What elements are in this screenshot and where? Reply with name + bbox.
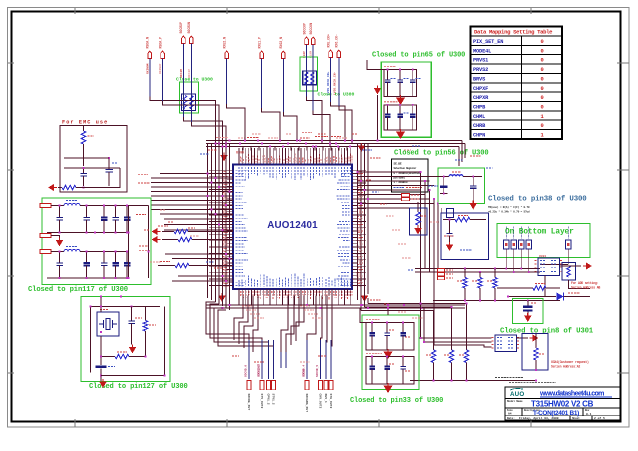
resistor R318 (crystal) (143, 307, 156, 357)
power arrow at U300 top-right (358, 143, 366, 152)
wire: bottom rail under U302 cluster (410, 380, 536, 382)
cap cell rail A (pin33) (366, 320, 414, 351)
capacitor C332 (369, 323, 375, 351)
diode D300 (557, 293, 591, 301)
wire bus: vertical lines left of U300 (208, 144, 230, 311)
component box U304 (522, 334, 548, 371)
junction dots row2 (59, 251, 128, 279)
capacitor C331 (523, 301, 537, 315)
connector pin CN322 (bottom) (267, 381, 271, 405)
green box pin127 outline (81, 297, 170, 382)
connector pin CN325 (bottom) (316, 365, 323, 409)
svg-text:CHPB: CHPB (473, 104, 486, 110)
capacitor C337 (400, 357, 411, 385)
svg-text:AUO12401: AUO12401 (267, 220, 318, 231)
connector pin CN306 (top) (279, 37, 285, 59)
junction dots on left rows (215, 177, 231, 206)
ground arrow (crystal bottom) (99, 379, 107, 388)
capacitor C307 (56, 252, 63, 279)
junction dots lower right rail (464, 296, 529, 302)
svg-text:CKV_OUT2: CKV_OUT2 (319, 394, 323, 409)
svg-text:BRVS: BRVS (473, 76, 486, 82)
capacitor C310 (112, 252, 119, 279)
svg-text:CHRB: CHRB (473, 123, 486, 129)
svg-text:TR(use) = R(A) * C(F) * 0.79: TR(use) = R(A) * C(F) * 0.79 (488, 205, 530, 209)
connector pin CN320 (bottom) (244, 365, 251, 411)
cap cell rail B (pin33) (366, 354, 414, 385)
wire: crystal top rail (91, 297, 161, 373)
junction dot (377, 140, 379, 142)
IC U300 bottom pin names (239, 274, 351, 287)
capacitor C313 (block) (96, 357, 116, 382)
net labels below top connector pins (146, 51, 336, 95)
connector pads P302 (3-pad) (438, 269, 454, 280)
power arrow VDD (right of U301) (583, 263, 592, 270)
net label in box C (460, 249, 472, 251)
wire bus: left entry rows into U300 (151, 174, 233, 231)
wire: top connector pins to bus (staircase) (150, 44, 352, 147)
green box pin117 outline (42, 198, 151, 285)
svg-text:RXE1_P: RXE1_P (257, 37, 261, 49)
green box pin56 outline (438, 168, 485, 204)
svg-text:Serien Address AB: Serien Address AB (571, 286, 600, 290)
IC U300 top pin names (239, 167, 351, 180)
capacitor C308 (83, 252, 90, 279)
resistor R323 (I2C pull-up) (472, 272, 482, 301)
svg-text:1: 1 (541, 114, 544, 120)
svg-text:PRVS1: PRVS1 (473, 58, 488, 64)
wire: U300 bottom to connector staircase (left group) (234, 296, 258, 353)
connector pin CN310 (top) (335, 34, 341, 57)
svg-text:Closed to pin8 of U301: Closed to pin8 of U301 (500, 328, 594, 336)
wire: test pads to I2C bus (506, 249, 568, 272)
junction dots pin65 B (387, 104, 414, 106)
resistor R325 (series) (497, 284, 560, 291)
svg-text:U301: U301 (539, 255, 546, 258)
resistor R301 (EMC ground path) (58, 185, 120, 189)
test pad TP304 (bottom layer right) (566, 227, 572, 250)
junction dots EMC (83, 157, 110, 188)
capacitor C304 (101, 206, 108, 233)
svg-text:Model Name: Model Name (507, 399, 523, 403)
connector pin CN321 (bottom) (257, 365, 264, 409)
power arrow REF1 (left, pointing left) (152, 226, 169, 235)
capacitor C311 (124, 252, 131, 279)
svg-text:OEV_1: OEV_1 (324, 394, 328, 403)
svg-text:CKVB: CKVB (302, 369, 305, 376)
svg-text:CHPXF: CHPXF (473, 86, 488, 92)
junction dots left rows extra (207, 173, 231, 282)
test pad TP302 (bottom layer) (519, 227, 525, 250)
resistor R319 (crystal series) (101, 336, 146, 359)
junction dots bottom rail (433, 369, 537, 381)
svg-text:RXE_CK+: RXE_CK+ (326, 34, 330, 47)
capacitor C336 (384, 357, 395, 385)
cap cell rail A (pin65) (384, 67, 417, 97)
svg-text:For ADD setting:: For ADD setting: (571, 281, 599, 285)
svg-text:SE_BE: SE_BE (394, 163, 402, 166)
svg-text:CHML: CHML (473, 114, 485, 120)
capacitor C330 (447, 220, 453, 244)
wire bus: horizontal rails below U300 (206, 302, 465, 308)
net labels above bottom connectors (257, 364, 305, 376)
connector pin CN304 (top) (222, 37, 228, 59)
capacitor C301 (EMC) (105, 158, 118, 186)
capacitor C321 (397, 70, 409, 97)
junction dots crystal bottom (100, 356, 146, 377)
ground arrow pin56 (469, 201, 477, 210)
svg-text:0.1: 0.1 (586, 413, 592, 416)
svg-text:2 of 5: 2 of 5 (594, 416, 605, 420)
ground arrow in R320 box (414, 226, 422, 235)
svg-text:STV1_2: STV1_2 (272, 394, 276, 405)
svg-text:1: 1 (541, 133, 544, 139)
svg-text:RXE2_N: RXE2_N (222, 37, 226, 49)
wire bus: vertical lines right of U300 (358, 144, 369, 301)
wire: pin65 box feed (367, 60, 384, 70)
resistor R322 (I2C pull-up) (457, 269, 467, 301)
svg-text:Closed to pin117 of U300: Closed to pin117 of U300 (28, 286, 128, 294)
svg-text:0: 0 (541, 58, 544, 64)
net labels left of U300 (136, 175, 151, 251)
connector pin CN326 (bottom) (324, 381, 328, 403)
wire bus: horizontal rails above U300 (206, 141, 465, 151)
pull-down network box (R320) (410, 202, 428, 235)
green box around RN301 (180, 82, 199, 113)
title block size cell (507, 408, 592, 417)
capacitor C320 (385, 70, 396, 97)
svg-text:Data Mapping Setting Table: Data Mapping Setting Table (474, 29, 553, 36)
junction dot in box C (449, 219, 451, 221)
svg-text:SOCCKP: SOCCKP (302, 23, 306, 35)
svg-text:0: 0 (541, 76, 544, 82)
svg-text:Closed to pin33 of U300: Closed to pin33 of U300 (350, 397, 443, 405)
capacitor C324 (397, 105, 409, 130)
IC U300 left pin numbers and stubs (209, 170, 233, 287)
wire: box D down (569, 280, 591, 289)
junction dots on bottom rails (222, 304, 422, 309)
AUO logo (510, 388, 524, 398)
wire: crystal loop (101, 307, 165, 376)
wire: diode rail (508, 296, 556, 298)
resistor R326 (426, 311, 436, 381)
svg-text:RSDA_P: RSDA_P (158, 37, 162, 49)
formula text under pin38 annotation (488, 205, 530, 214)
connector pin CN307 (top) (302, 23, 308, 45)
inductor L300 (51, 201, 129, 206)
connector pads P301 (2-pad) (402, 194, 420, 201)
svg-text:Selection Register: Selection Register (394, 166, 417, 170)
IC U300 top pin numbers and stubs (239, 148, 352, 165)
capacitor C305 (112, 206, 119, 233)
svg-text:STV_OUT2: STV_OUT2 (260, 394, 264, 409)
capacitor C309 (101, 252, 108, 279)
svg-text:A4: A4 (508, 413, 512, 416)
svg-text:RSDA_N: RSDA_N (146, 37, 150, 49)
junction dots pin33 A (371, 322, 404, 324)
IC U301 (EEPROM) (535, 255, 564, 276)
connector pin CN309 (top) (326, 34, 332, 57)
power arrow REF2 (left, pointing left) (152, 236, 161, 243)
IC U302 (EEPROM socket) (492, 335, 521, 352)
resistor pack RN302 (303, 71, 317, 85)
green box pin65 outline (381, 62, 431, 137)
wire: row1 bottom rail (47, 232, 129, 234)
wire: pin117 box right verticals (129, 206, 149, 279)
capacitor C306 (124, 206, 131, 233)
wire bus: rails below U300 to right cluster (361, 294, 467, 311)
junction dots right rows (357, 171, 369, 204)
ground arrow (crystal mid) (129, 333, 137, 353)
capacitor C334 (400, 323, 411, 351)
svg-text:LVDS_RXCK_IN+: LVDS_RXCK_IN+ (327, 71, 330, 95)
svg-text:SOCRXN: SOCRXN (187, 22, 191, 34)
annotation: U3X4 customer request (551, 360, 589, 369)
junction dots pin65 A (387, 69, 414, 71)
connector pin CN303 (top) (187, 22, 193, 44)
capacitor C323 (385, 105, 391, 130)
IC U300 bottom pin numbers and stubs (239, 289, 352, 305)
wire: pin33 box feed (360, 308, 388, 323)
svg-text:PRVS2: PRVS2 (473, 67, 488, 73)
svg-text:RXIN0M: RXIN0M (146, 63, 149, 74)
wire: U302 cluster hookup (421, 304, 492, 348)
wire: left bundle to bottom connector staircase (206, 302, 274, 379)
wire bus: right rows from U300 (357, 172, 434, 208)
test pad TP301 (bottom layer) (511, 227, 517, 250)
power arrow at U300 bottom-right (361, 293, 369, 302)
connector pin CN305 (top) (257, 37, 263, 59)
svg-text:CPV1_2: CPV1_2 (267, 394, 271, 405)
svg-text:CKV_OUT: CKV_OUT (257, 364, 260, 376)
resistor R317 (series) (158, 262, 233, 268)
svg-text:On Bottom Layer: On Bottom Layer (505, 229, 574, 237)
resistor R315 (series) (162, 229, 233, 233)
capacitor C300 (EMC) (80, 168, 87, 186)
connector pin CN308 (top) (309, 23, 315, 45)
cap cell rail B (pin65) (384, 102, 417, 130)
capacitor C302 (56, 206, 63, 233)
wire: row2 bottom rail (47, 277, 129, 279)
title block date row (507, 416, 605, 420)
connector pin CN300 (top) (146, 37, 152, 59)
junction dots on I2C rails (464, 268, 529, 273)
annotation: For ADD setting (571, 281, 600, 290)
power arrow VDD (above right of U300) (374, 86, 382, 141)
svg-text:CHPN: CHPN (473, 133, 485, 139)
svg-text:0: 0 (541, 39, 544, 45)
wire: lower right rail (433, 300, 560, 302)
svg-text:U300: U300 (236, 152, 244, 156)
svg-text:LVDS_RXCK_IN-: LVDS_RXCK_IN- (334, 71, 337, 95)
svg-text:SOCDE_OUT: SOCDE_OUT (247, 394, 251, 411)
svg-text:PIX_SET_EN: PIX_SET_EN (473, 39, 503, 45)
svg-text:0: 0 (541, 67, 544, 73)
svg-text:RXO_CK-: RXO_CK- (335, 34, 339, 47)
svg-text:0: 0 (541, 95, 544, 101)
pin number labels on bottom staircase (242, 306, 322, 318)
power arrow at U300 bottom-left (218, 293, 226, 302)
wire bus: I2C rails (415, 265, 568, 273)
svg-text:0: 0 (541, 48, 544, 54)
svg-text:SOCCKN: SOCCKN (309, 23, 313, 35)
capacitor C333 (384, 323, 395, 351)
ground arrow C331 (524, 313, 532, 322)
svg-text:Close to U300: Close to U300 (318, 92, 355, 98)
scattered net name labels (144, 134, 492, 362)
connector pin CN301 (top) (158, 37, 164, 59)
connector pin CN302 (top) (179, 22, 185, 44)
ground arrow pin33 A (384, 349, 393, 359)
title block web link (539, 391, 612, 398)
svg-text:Serien Address:A2: Serien Address:A2 (551, 365, 580, 369)
junction dots on top bus (215, 140, 353, 148)
svg-text:STH_OUT2: STH_OUT2 (329, 394, 333, 409)
svg-text:Closed to pin38 of U300: Closed to pin38 of U300 (488, 196, 587, 204)
svg-text:T-CON(t2401 B1): T-CON(t2401 B1) (533, 410, 579, 417)
resistor R316 (series) (162, 237, 233, 241)
ground arrow pin117 row (56, 238, 64, 247)
svg-text:Friday, April 03, 2009: Friday, April 03, 2009 (519, 416, 559, 420)
inductor L301 (51, 247, 129, 252)
ground arrow pin33 B (384, 383, 393, 393)
resistor R300 (EMC) (81, 126, 94, 167)
svg-text:RXO2_N: RXO2_N (279, 37, 283, 49)
net labels on top bus (216, 133, 341, 138)
svg-text:0: 0 (541, 86, 544, 92)
IC U300 right pin names (337, 170, 350, 285)
svg-text:For EMC use: For EMC use (62, 120, 108, 126)
connector pin CN324 (bottom) (302, 365, 309, 413)
capacitor C312 (crystal) (128, 307, 142, 334)
capacitor C327 (pin56) (470, 177, 477, 202)
filter network box (R321/C330) (441, 213, 489, 260)
green box around RN302 (300, 57, 318, 91)
resistor pack RN301 (182, 94, 196, 111)
component box U306 (small) (447, 209, 454, 218)
svg-text:CHPXR: CHPXR (473, 95, 489, 101)
wire: EMC top rail (64, 157, 109, 159)
wire: navy drops at bottom connectors (249, 340, 331, 379)
ground arrow in box C (446, 242, 454, 251)
wire bus: right vertical bundle (421, 172, 442, 345)
wire: EMC node rail (64, 168, 120, 188)
svg-text:AUO: AUO (510, 391, 524, 398)
wire: U300 bottom to connector staircase (right group) (281, 296, 332, 380)
inductor L302 (433, 172, 482, 177)
wire: left short stubs rows (165, 254, 233, 281)
capacitor C303 (83, 206, 90, 233)
ground arrow pin65 A (396, 95, 405, 105)
capacitor C325 (410, 105, 416, 130)
IC U300 left pin names (236, 170, 249, 285)
svg-text:Rev: Rev (585, 409, 590, 412)
svg-text:SOCVD_5: SOCVD_5 (316, 365, 319, 377)
svg-text:U3X4(Customer request): U3X4(Customer request) (551, 360, 589, 364)
title block outline (505, 387, 620, 420)
crystal X300 symbol (99, 310, 117, 330)
wire: U301 pin to diode rail (544, 276, 546, 297)
junction dots pin56 (443, 176, 474, 178)
power arrow EMC (pointing left) (48, 184, 57, 191)
junction dots on right rails (387, 303, 421, 309)
svg-text:0: 0 (541, 123, 544, 129)
connector pad P300-3 (40, 250, 60, 254)
svg-text:RXIN0P: RXIN0P (159, 63, 162, 74)
svg-text:Sheet: Sheet (572, 416, 580, 420)
capacitor C326 (pin56) (440, 177, 448, 194)
wire: bus drop from top rails to right cluster (459, 141, 465, 167)
legend box SE_BE selection register (392, 159, 429, 192)
connector pad P300-1 (40, 204, 60, 208)
svg-text:T315HW02 V2 CB: T315HW02 V2 CB (531, 400, 594, 409)
power arrow at U300 top-left (220, 153, 228, 162)
svg-text:0: 0 (541, 104, 544, 110)
crystal X300 box (97, 312, 119, 336)
test pad TP300 (bottom layer) (504, 227, 510, 250)
svg-text:SOCGMA_OUT: SOCGMA_OUT (305, 394, 309, 413)
table: Data Mapping Setting Table (471, 27, 563, 139)
svg-text:SOCVD_0: SOCVD_0 (244, 365, 247, 377)
green box On Bottom Layer outline (497, 224, 590, 258)
component box beside U301 (562, 263, 576, 281)
connector pin CN327 (bottom) (329, 381, 333, 409)
resistor R324 (I2C pull-up) (487, 269, 497, 301)
net label bottom rail (495, 377, 523, 379)
junction dots row1 (59, 205, 128, 234)
power arrow VDD (right of U302) (517, 335, 539, 342)
resistor R328 (459, 304, 469, 381)
svg-text:MODE4L: MODE4L (473, 48, 491, 54)
watermark text above title block (509, 382, 556, 384)
svg-text:SOCRXP: SOCRXP (179, 22, 183, 34)
junction dots pin33 B (371, 356, 404, 358)
IC U300 right pin numbers and stubs (352, 170, 366, 287)
connector pin CN323 (bottom) (272, 381, 276, 405)
svg-text:Closed to pin65 of U300: Closed to pin65 of U300 (372, 52, 465, 60)
svg-text:www.datasheet4u.com: www.datasheet4u.com (539, 391, 604, 398)
junction dots crystal top (100, 296, 132, 308)
IC U300 AUO12401 body (233, 165, 352, 290)
EMC block outline (60, 126, 127, 193)
green box C331 outline (513, 299, 544, 324)
connector pad P300-2 (40, 234, 60, 238)
test pad TP303 (bottom layer) (526, 227, 532, 250)
capacitor C322 (410, 70, 422, 97)
wire: pad2 to ground (51, 236, 60, 239)
svg-text:=0.22u * 0.34k * 0.79 = 57ud: =0.22u * 0.34k * 0.79 = 57ud (488, 210, 530, 214)
extra junction dots on buses (90, 140, 468, 377)
ground arrow pin65 B (396, 129, 405, 139)
capacitor C335 (369, 357, 375, 385)
green box pin33 outline (362, 315, 419, 390)
svg-text:Date:: Date: (507, 417, 515, 420)
resistor R327 (444, 307, 454, 381)
wire: U301 to VDD arrow (560, 265, 582, 267)
